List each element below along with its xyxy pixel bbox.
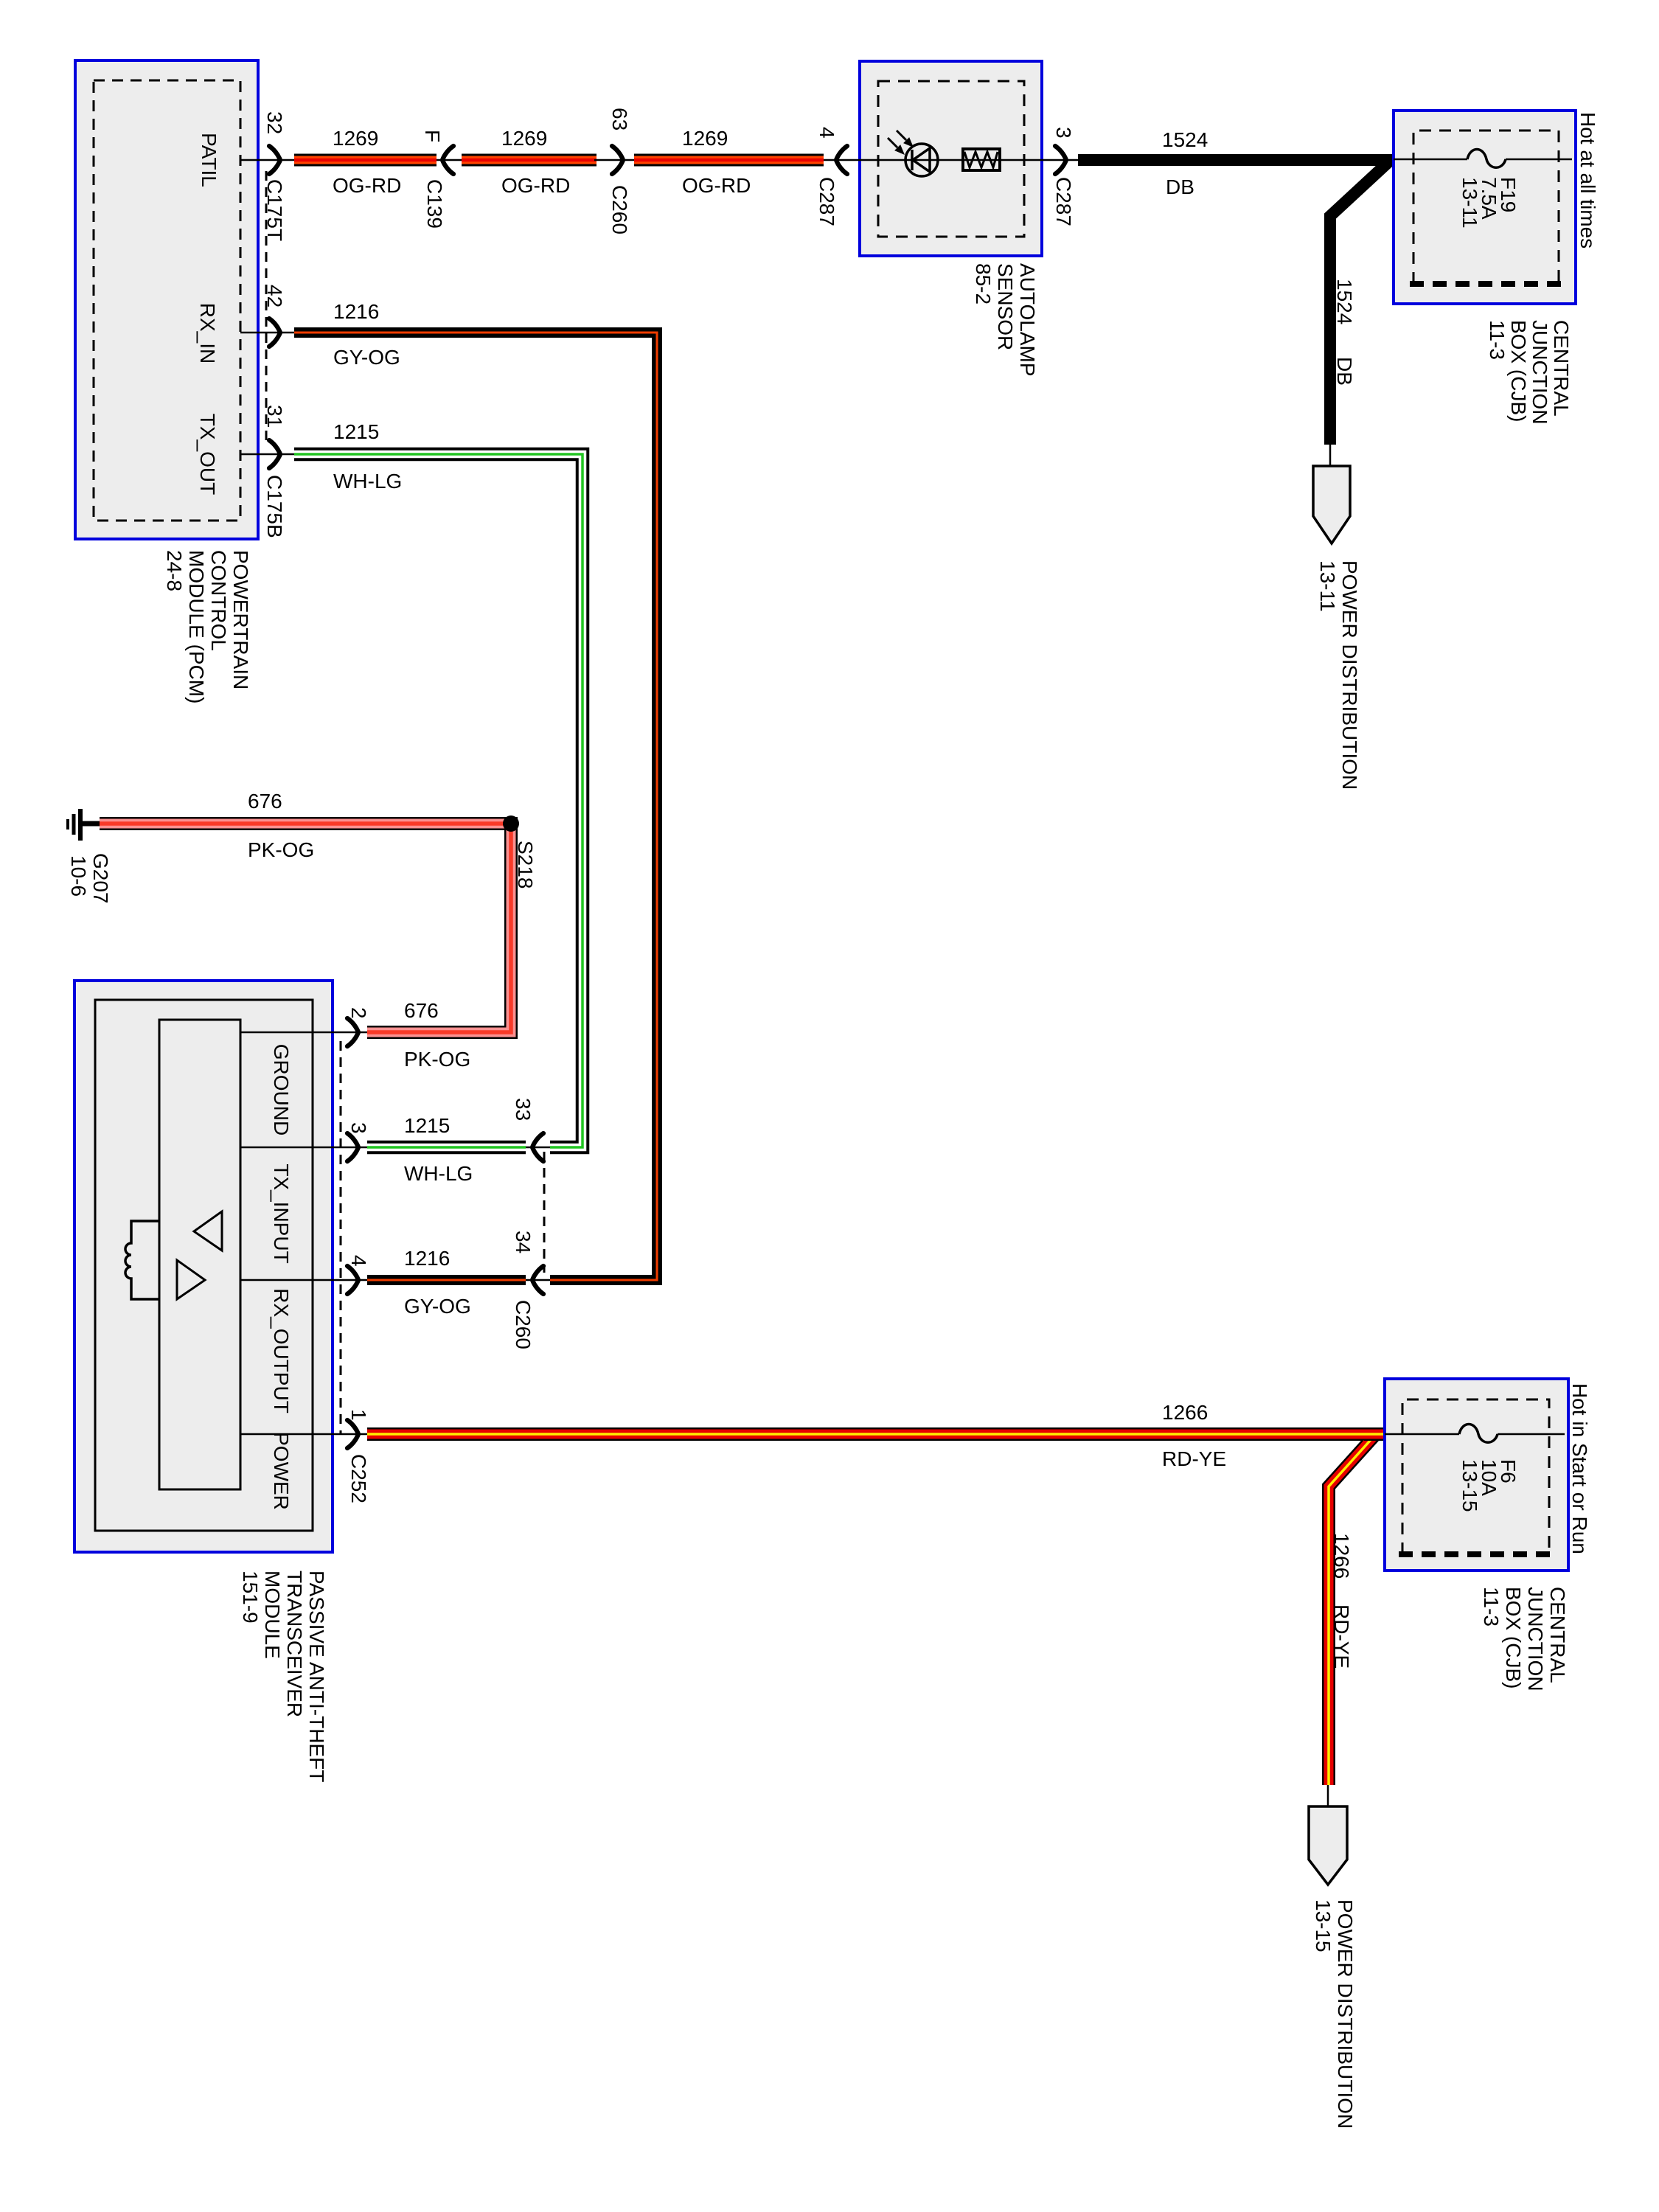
pin 42 label bbox=[263, 285, 286, 307]
svg-text:676: 676 bbox=[248, 790, 282, 813]
power distribution arrow 13-11 bbox=[1313, 445, 1350, 543]
connector C175B label bbox=[263, 475, 286, 538]
svg-text:POWER: POWER bbox=[270, 1432, 293, 1510]
svg-text:RX_OUTPUT: RX_OUTPUT bbox=[270, 1288, 293, 1413]
svg-text:CENTRAL: CENTRAL bbox=[1550, 320, 1573, 417]
svg-text:1269: 1269 bbox=[682, 127, 728, 150]
photocell D1 bbox=[888, 131, 938, 176]
wire label RD-YE vertical bbox=[1330, 1604, 1353, 1669]
PCM pin name RX_IN bbox=[196, 303, 219, 364]
svg-text:24-8: 24-8 bbox=[163, 550, 186, 591]
wire label 1524 vertical bbox=[1333, 279, 1356, 324]
wire TX_OUT pin lead bbox=[240, 453, 294, 456]
svg-text:1216: 1216 bbox=[333, 300, 379, 323]
transceiver RX triangle bbox=[194, 1211, 222, 1251]
wire label OG-RD bbox=[682, 174, 751, 197]
wire label 1269 bbox=[501, 127, 547, 150]
ground G207 bbox=[68, 809, 101, 841]
svg-text:1269: 1269 bbox=[501, 127, 547, 150]
wire label WH-LG lower bbox=[404, 1162, 473, 1185]
svg-text:GY-OG: GY-OG bbox=[404, 1295, 471, 1318]
pin 3 arrow bbox=[347, 1133, 358, 1161]
PCM pin name PATIL bbox=[198, 133, 220, 187]
pin F label bbox=[421, 130, 444, 142]
pin 32 arrow bbox=[269, 146, 280, 174]
transceiver pin 2 lead bbox=[240, 1032, 367, 1034]
connector C260 label lower bbox=[512, 1300, 535, 1349]
wire 1524 DB thick bbox=[1078, 154, 1394, 166]
transceiver pin 4 lead bbox=[240, 1279, 367, 1281]
svg-text:1266: 1266 bbox=[1162, 1401, 1208, 1424]
svg-text:PK-OG: PK-OG bbox=[404, 1048, 470, 1071]
wire label RD-YE bbox=[1162, 1447, 1226, 1470]
svg-text:WH-LG: WH-LG bbox=[333, 470, 402, 493]
svg-text:10-6: 10-6 bbox=[67, 855, 90, 897]
svg-text:CENTRAL: CENTRAL bbox=[1546, 1587, 1569, 1683]
svg-text:G207: G207 bbox=[89, 853, 112, 904]
transceiver pin name GROUND bbox=[270, 1044, 293, 1135]
pin 63 label bbox=[608, 108, 631, 131]
wire 1269 OG-RD segment 2 bbox=[462, 154, 597, 167]
autolamp internal wire bbox=[848, 159, 1057, 161]
power distribution label lower bbox=[1312, 1899, 1357, 2129]
svg-text:C260: C260 bbox=[512, 1300, 535, 1349]
svg-text:4: 4 bbox=[347, 1255, 370, 1267]
fuse F19 bbox=[1394, 150, 1572, 168]
svg-text:1216: 1216 bbox=[404, 1247, 450, 1270]
connector C260 dashed line bbox=[543, 1152, 546, 1273]
PCM module label bbox=[163, 550, 252, 703]
transceiver pin name TX_INPUT bbox=[270, 1164, 293, 1263]
connector C139 label bbox=[423, 179, 446, 229]
connector C252 label bbox=[347, 1454, 370, 1503]
svg-text:GROUND: GROUND bbox=[270, 1044, 293, 1135]
PCM connector C175 dashed line bbox=[265, 171, 268, 446]
PCM module box bbox=[75, 60, 258, 539]
wire label 1269 bbox=[333, 127, 378, 150]
svg-text:GY-OG: GY-OG bbox=[333, 346, 400, 369]
wire label 1266 vertical bbox=[1330, 1533, 1353, 1579]
connector C260 arrow row 1215 bbox=[526, 1133, 550, 1161]
wire label GY-OG lower bbox=[404, 1295, 471, 1318]
pin 33 label bbox=[512, 1098, 535, 1121]
svg-text:OG-RD: OG-RD bbox=[333, 174, 401, 197]
wire label 1216 lower bbox=[404, 1247, 450, 1270]
svg-text:C252: C252 bbox=[347, 1454, 370, 1503]
pin 1 arrow bbox=[347, 1420, 358, 1448]
svg-text:DB: DB bbox=[1333, 357, 1356, 386]
svg-text:JUNCTION: JUNCTION bbox=[1528, 320, 1551, 425]
wire label 676 lower bbox=[404, 999, 439, 1022]
svg-text:3: 3 bbox=[347, 1122, 370, 1134]
pin 34 label bbox=[512, 1231, 535, 1253]
pin 3 label bbox=[1052, 127, 1075, 139]
svg-text:3: 3 bbox=[1052, 127, 1075, 139]
Hot at all times label bbox=[1576, 112, 1599, 248]
pin 32 label bbox=[263, 111, 286, 134]
connector C287 arrow left bbox=[824, 146, 848, 174]
wire label 1215 bbox=[333, 420, 379, 443]
pin 4 label bbox=[347, 1255, 370, 1267]
wire 1269 OG-RD segment 3 bbox=[634, 154, 824, 167]
wire label OG-RD bbox=[333, 174, 401, 197]
ground G207 label bbox=[67, 853, 112, 904]
svg-text:33: 33 bbox=[512, 1098, 535, 1121]
svg-text:63: 63 bbox=[608, 108, 631, 131]
wire label 1216 bbox=[333, 300, 379, 323]
pin 4 label bbox=[815, 127, 838, 139]
svg-text:4: 4 bbox=[815, 127, 838, 139]
wire 1216 GY-OG stub to pin 4 bbox=[367, 1275, 526, 1285]
svg-text:C139: C139 bbox=[423, 179, 446, 229]
svg-text:C260: C260 bbox=[608, 185, 631, 234]
wire 1269 OG-RD segment 1 bbox=[294, 154, 437, 167]
wire label WH-LG bbox=[333, 470, 402, 493]
svg-text:13-11: 13-11 bbox=[1316, 560, 1339, 612]
autolamp sensor label bbox=[972, 263, 1039, 377]
wire label 1215 lower bbox=[404, 1114, 450, 1137]
wire 1266 into CJB bbox=[1364, 1427, 1385, 1441]
power distribution arrow 13-15 bbox=[1309, 1785, 1347, 1885]
connector C287 label right bbox=[1052, 177, 1075, 226]
svg-text:F: F bbox=[421, 130, 444, 142]
fuse F6 bbox=[1385, 1425, 1565, 1443]
svg-text:151-9: 151-9 bbox=[239, 1571, 262, 1624]
svg-text:676: 676 bbox=[404, 999, 439, 1022]
transceiver module label bbox=[239, 1571, 328, 1782]
transceiver pin name RX_OUTPUT bbox=[270, 1288, 293, 1413]
svg-text:1: 1 bbox=[347, 1409, 370, 1421]
svg-text:BOX (CJB): BOX (CJB) bbox=[1502, 1587, 1525, 1688]
svg-text:11-3: 11-3 bbox=[1486, 320, 1509, 360]
central junction box bottom bbox=[1385, 1379, 1568, 1571]
wire PATIL pin lead bbox=[240, 159, 294, 161]
central junction box top bbox=[1394, 111, 1576, 304]
svg-text:RD-YE: RD-YE bbox=[1330, 1604, 1353, 1669]
transceiver pin 3 lead bbox=[240, 1147, 367, 1149]
svg-text:C287: C287 bbox=[815, 177, 838, 226]
svg-text:2: 2 bbox=[347, 1007, 370, 1019]
svg-text:SENSOR: SENSOR bbox=[994, 263, 1017, 350]
svg-text:OG-RD: OG-RD bbox=[501, 174, 570, 197]
svg-text:34: 34 bbox=[512, 1231, 535, 1253]
connector C260 arrow row 1216 bbox=[526, 1266, 550, 1294]
wire label DB vertical bbox=[1333, 357, 1356, 386]
svg-text:42: 42 bbox=[263, 285, 286, 307]
svg-text:Hot in Start or Run: Hot in Start or Run bbox=[1568, 1383, 1591, 1554]
splice S218 bbox=[503, 815, 519, 832]
fuse F19 label bbox=[1458, 177, 1520, 229]
transceiver pin name POWER bbox=[270, 1432, 293, 1510]
svg-text:Hot at all times: Hot at all times bbox=[1576, 112, 1599, 248]
transceiver pin 1 lead bbox=[240, 1433, 367, 1436]
svg-text:TRANSCEIVER: TRANSCEIVER bbox=[283, 1571, 306, 1717]
wire 1215 WH-LG stub to pin 3 bbox=[367, 1141, 526, 1155]
svg-text:PK-OG: PK-OG bbox=[248, 838, 314, 861]
wire label 676 bbox=[248, 790, 282, 813]
pin 31 label bbox=[263, 405, 286, 428]
autolamp sensor box bbox=[860, 61, 1042, 256]
pin 4 arrow bbox=[347, 1266, 358, 1294]
splice S218 label bbox=[514, 841, 537, 888]
svg-text:1266: 1266 bbox=[1330, 1533, 1353, 1579]
svg-text:BOX (CJB): BOX (CJB) bbox=[1507, 320, 1530, 422]
connector C287 label bbox=[815, 177, 838, 226]
svg-text:JUNCTION: JUNCTION bbox=[1524, 1587, 1547, 1691]
power distribution label bbox=[1316, 560, 1361, 790]
wire label PK-OG lower bbox=[404, 1048, 470, 1071]
pin 3 label bbox=[347, 1122, 370, 1134]
PCM pin name TX_OUT bbox=[196, 414, 219, 495]
wire label GY-OG bbox=[333, 346, 400, 369]
pin 3 arrow bbox=[1055, 146, 1078, 174]
svg-text:RD-YE: RD-YE bbox=[1162, 1447, 1226, 1470]
svg-text:C175B: C175B bbox=[263, 475, 286, 538]
svg-text:PASSIVE ANTI-THEFT: PASSIVE ANTI-THEFT bbox=[305, 1571, 328, 1782]
pin 1 label bbox=[347, 1409, 370, 1421]
transceiver TX triangle bbox=[177, 1260, 205, 1299]
svg-text:POWERTRAIN: POWERTRAIN bbox=[229, 550, 252, 689]
svg-text:1269: 1269 bbox=[333, 127, 378, 150]
svg-text:CONTROL: CONTROL bbox=[207, 550, 230, 651]
svg-text:11-3: 11-3 bbox=[1480, 1587, 1503, 1627]
wire RX_IN pin lead bbox=[240, 332, 294, 334]
svg-text:MODULE: MODULE bbox=[261, 1571, 284, 1659]
fuse F6 label bbox=[1458, 1459, 1520, 1512]
wire label PK-OG bbox=[248, 838, 314, 861]
pin 2 label bbox=[347, 1007, 370, 1019]
svg-text:DB: DB bbox=[1166, 175, 1194, 198]
svg-text:RX_IN: RX_IN bbox=[196, 303, 219, 364]
wire label 1524 bbox=[1162, 128, 1208, 151]
CJB top label bbox=[1486, 320, 1573, 425]
pin 31 arrow bbox=[269, 440, 280, 468]
svg-text:13-15: 13-15 bbox=[1312, 1899, 1335, 1952]
transceiver coil L1 bbox=[125, 1221, 159, 1299]
svg-text:1215: 1215 bbox=[404, 1114, 450, 1137]
svg-text:S218: S218 bbox=[514, 841, 537, 888]
pin 2 arrow bbox=[347, 1018, 358, 1046]
svg-text:1215: 1215 bbox=[333, 420, 379, 443]
svg-text:13-15: 13-15 bbox=[1458, 1459, 1481, 1512]
svg-text:TX_INPUT: TX_INPUT bbox=[270, 1164, 293, 1263]
svg-text:85-2: 85-2 bbox=[972, 263, 995, 305]
svg-text:32: 32 bbox=[263, 111, 286, 134]
wire 1215 WH-LG main run bbox=[294, 454, 582, 1147]
svg-text:PATIL: PATIL bbox=[198, 133, 220, 187]
connector C260 label bbox=[608, 185, 631, 234]
wire 1266 RD-YE bbox=[367, 1434, 1376, 1785]
pin 42 arrow bbox=[269, 319, 280, 347]
connector C252 dashed line bbox=[340, 1041, 342, 1435]
svg-text:1524: 1524 bbox=[1162, 128, 1208, 151]
svg-text:13-11: 13-11 bbox=[1458, 177, 1481, 229]
wire 1524 DB branch to power distribution bbox=[1330, 161, 1389, 445]
connector C139 arrow bbox=[437, 146, 463, 174]
wire 676 PK-OG bbox=[100, 824, 511, 1032]
wire label 1269 bbox=[682, 127, 728, 150]
passive anti-theft transceiver module box bbox=[74, 981, 333, 1552]
Hot in Start or Run label bbox=[1568, 1383, 1591, 1554]
svg-text:MODULE (PCM): MODULE (PCM) bbox=[185, 550, 208, 703]
svg-text:WH-LG: WH-LG bbox=[404, 1162, 473, 1185]
svg-text:OG-RD: OG-RD bbox=[682, 174, 751, 197]
wire 1216 GY-OG main run bbox=[294, 333, 657, 1280]
connector C175T label bbox=[263, 179, 286, 241]
svg-text:POWER DISTRIBUTION: POWER DISTRIBUTION bbox=[1334, 1899, 1357, 2129]
svg-text:C175T: C175T bbox=[263, 179, 286, 241]
wire label OG-RD bbox=[501, 174, 570, 197]
wire label 1266 bbox=[1162, 1401, 1208, 1424]
CJB bottom label bbox=[1480, 1587, 1569, 1691]
wire label DB bbox=[1166, 175, 1194, 198]
svg-text:1524: 1524 bbox=[1333, 279, 1356, 324]
svg-text:31: 31 bbox=[263, 405, 286, 428]
connector C260 arrow bbox=[594, 146, 636, 174]
svg-text:POWER DISTRIBUTION: POWER DISTRIBUTION bbox=[1338, 560, 1361, 790]
svg-text:TX_OUT: TX_OUT bbox=[196, 414, 219, 495]
svg-text:C287: C287 bbox=[1052, 177, 1075, 226]
svg-text:AUTOLAMP: AUTOLAMP bbox=[1016, 263, 1039, 377]
resistor R1 bbox=[963, 149, 1000, 170]
